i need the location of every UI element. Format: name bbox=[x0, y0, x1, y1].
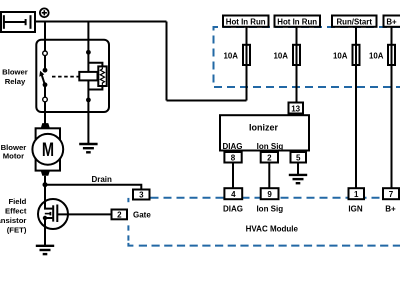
svg-text:Gate: Gate bbox=[133, 210, 151, 219]
svg-text:HVAC Module: HVAC Module bbox=[246, 224, 299, 233]
svg-text:2: 2 bbox=[117, 210, 122, 219]
wire drain into FET bbox=[44, 185, 46, 209]
svg-text:Ion Sig: Ion Sig bbox=[256, 204, 283, 213]
relay actuation dashed link bbox=[52, 76, 79, 78]
wire feed bottom horizontal bbox=[167, 100, 247, 102]
pin 2 box (ionizer) bbox=[261, 152, 278, 163]
ground (FET source) bbox=[36, 246, 54, 254]
net label Hot In Run (fuse F1) bbox=[223, 16, 269, 27]
ground (relay coil) bbox=[79, 144, 97, 152]
svg-text:Motor: Motor bbox=[3, 152, 24, 161]
net label B+ (fuse F4) bbox=[384, 16, 400, 27]
relay switch blade bbox=[42, 75, 45, 85]
svg-text:13: 13 bbox=[291, 104, 300, 113]
svg-text:Field: Field bbox=[8, 197, 26, 206]
wire relay to motor bbox=[44, 102, 46, 124]
svg-text:5: 5 bbox=[296, 154, 301, 163]
relay coil branch junction dot top bbox=[86, 50, 91, 55]
svg-text:1: 1 bbox=[354, 190, 359, 199]
wire fuse F2 to pin 13 bbox=[296, 26, 298, 104]
svg-text:Ionizer: Ionizer bbox=[249, 123, 279, 133]
svg-text:10A: 10A bbox=[333, 52, 348, 61]
HVAC module dashed boundary top (blue) bbox=[151, 197, 400, 199]
wire drain to pin 3 bbox=[45, 185, 141, 190]
pin 13 box bbox=[289, 103, 304, 114]
svg-text:DIAG: DIAG bbox=[223, 204, 243, 213]
svg-text:Hot In Run: Hot In Run bbox=[226, 17, 266, 26]
HVAC module dashed boundary bottom bbox=[139, 245, 400, 247]
wire battery feed bbox=[35, 21, 167, 23]
svg-text:(FET): (FET) bbox=[7, 225, 27, 234]
node drain junction dot bbox=[43, 182, 48, 187]
pin 7 box bbox=[383, 188, 399, 199]
pin 5 box bbox=[291, 152, 307, 163]
fuse F3 10A bbox=[353, 45, 360, 65]
battery B1 bbox=[1, 12, 35, 32]
relay blade pivot dot bbox=[43, 82, 48, 87]
HVAC module dashed boundary left stub below pin 3 bbox=[127, 198, 129, 202]
wire fuse F4 to pin 7 bbox=[391, 26, 393, 189]
pin 8 box bbox=[224, 152, 241, 163]
power distribution dashed boundary (blue) bbox=[214, 27, 400, 87]
pin 1 box bbox=[349, 188, 365, 199]
svg-text:Transistor: Transistor bbox=[0, 216, 26, 225]
HVAC module dashed boundary bottom-left corner bbox=[128, 243, 133, 246]
FET source dot bbox=[43, 216, 47, 220]
svg-text:Relay: Relay bbox=[5, 77, 26, 86]
svg-text:2: 2 bbox=[267, 154, 272, 163]
fuse F1 10A bbox=[243, 45, 250, 65]
fuse F4 10A bbox=[388, 45, 395, 65]
svg-text:IGN: IGN bbox=[348, 204, 362, 213]
HVAC module dashed boundary left vertical bbox=[127, 225, 129, 240]
wire coil branch lower bbox=[87, 80, 89, 143]
FET substrate stub with tick bbox=[45, 213, 51, 215]
pin 2 box (HVAC gate) bbox=[112, 210, 128, 220]
svg-text:B+: B+ bbox=[385, 204, 396, 213]
wire coil branch bbox=[87, 52, 89, 72]
FET drain elbow bbox=[45, 199, 52, 209]
svg-text:7: 7 bbox=[389, 190, 394, 199]
ionizer U1 box bbox=[220, 115, 309, 150]
svg-text:4: 4 bbox=[231, 190, 236, 199]
FET channel bar bbox=[52, 205, 54, 221]
wire fuse F1 bbox=[246, 26, 248, 101]
wire motor to drain node bbox=[44, 176, 46, 185]
blower motor bottom terminal bbox=[41, 171, 50, 176]
net label Hot In Run (fuse F2) bbox=[275, 16, 321, 27]
wire pin 5 to ground bbox=[297, 163, 299, 175]
wire contact bbox=[44, 56, 46, 68]
svg-text:10A: 10A bbox=[274, 52, 289, 61]
svg-text:M: M bbox=[42, 138, 54, 161]
wire blade to bottom terminal bbox=[44, 85, 46, 97]
relay coil box bbox=[79, 72, 97, 81]
wire gate bbox=[58, 213, 112, 215]
svg-text:8: 8 bbox=[231, 154, 236, 163]
transistor Q1 (FET) circle bbox=[38, 199, 68, 229]
blower motor body bbox=[36, 128, 60, 170]
relay contact terminal (open circle top) bbox=[43, 51, 48, 56]
svg-text:Blower: Blower bbox=[2, 68, 28, 77]
wire branch to relay coil bbox=[87, 22, 89, 53]
node B+ terminal (plus in circle) bbox=[40, 8, 49, 17]
ground (ionizer pin 5) bbox=[289, 175, 307, 183]
svg-text:10A: 10A bbox=[224, 52, 239, 61]
svg-text:Ion Sig: Ion Sig bbox=[257, 142, 284, 151]
net label Run/Start (fuse F3) bbox=[332, 16, 377, 27]
wire feed right vertical bbox=[166, 22, 168, 101]
svg-text:3: 3 bbox=[139, 191, 144, 200]
svg-text:Hot In Run: Hot In Run bbox=[277, 17, 317, 26]
pin 4 box bbox=[224, 188, 242, 199]
svg-text:9: 9 bbox=[267, 190, 272, 199]
relay coil resistor bracket bbox=[88, 63, 102, 90]
relay contact terminal (open circle bottom) bbox=[43, 97, 48, 102]
FET gate bar bbox=[56, 205, 58, 223]
relay fixed contact dot bbox=[43, 68, 48, 73]
svg-text:B+: B+ bbox=[386, 17, 397, 26]
svg-text:Drain: Drain bbox=[91, 175, 112, 184]
FET source stub bbox=[45, 217, 52, 219]
wire pin 2 to pin 9 bbox=[268, 163, 270, 190]
svg-text:Run/Start: Run/Start bbox=[336, 17, 372, 26]
wire branch to relay contact bbox=[44, 22, 46, 52]
svg-text:DIAG: DIAG bbox=[223, 142, 243, 151]
svg-text:Effect: Effect bbox=[5, 206, 27, 215]
pin 3 box (HVAC drain) bbox=[133, 190, 150, 200]
wire fuse F3 to pin 1 bbox=[355, 26, 357, 189]
relay coil resistor R bbox=[98, 66, 106, 86]
blower motor circle bbox=[32, 134, 63, 165]
fuse F2 10A bbox=[293, 45, 300, 65]
pin 9 box bbox=[261, 188, 279, 199]
relay K1 box bbox=[36, 40, 109, 112]
blower motor M1 top terminal bbox=[41, 123, 50, 128]
svg-text:10A: 10A bbox=[369, 52, 384, 61]
relay coil branch junction dot bottom bbox=[86, 98, 91, 103]
wire source to ground bbox=[44, 218, 46, 246]
wire pin 8 to pin 4 bbox=[232, 163, 234, 190]
